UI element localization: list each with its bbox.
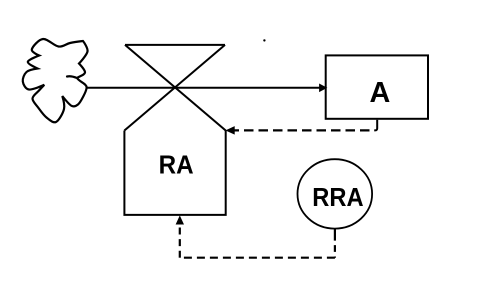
svg-text:RRA: RRA bbox=[312, 184, 363, 212]
svg-text:RA: RA bbox=[159, 151, 194, 179]
valve diagonal right-top to left-shoulder bbox=[124, 45, 225, 131]
valve diagonal left-top to right-shoulder bbox=[125, 45, 226, 131]
cloud source bbox=[23, 39, 88, 122]
link RRA to RA: dashed vertical from circle bbox=[334, 229, 336, 258]
link RRA to RA: dashed horizontal bbox=[180, 257, 335, 259]
link A to RA: stub from box bottom bbox=[374, 120, 377, 131]
link A to RA: dashed horizontal bbox=[235, 129, 370, 131]
flow wire cloud to A bbox=[87, 87, 321, 89]
link RRA to RA: arrowhead up into RA bbox=[176, 217, 183, 224]
valve top bar bbox=[125, 44, 225, 46]
stray dot bbox=[263, 39, 265, 41]
link RRA to RA: dashed vertical up to RA bottom bbox=[179, 224, 181, 258]
flow arrowhead into A bbox=[320, 84, 327, 91]
svg-text:A: A bbox=[370, 77, 391, 109]
link A to RA: arrowhead at RA shoulder bbox=[227, 127, 235, 134]
box A bbox=[326, 55, 428, 118]
stock RA outline bbox=[124, 131, 225, 215]
circle RRA bbox=[298, 159, 373, 228]
